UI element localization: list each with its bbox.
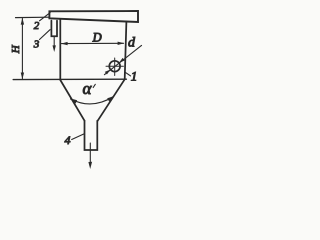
leader for 3 xyxy=(40,30,51,40)
cone left wall xyxy=(60,80,84,121)
svg-text:D: D xyxy=(92,31,102,45)
body right wall xyxy=(125,22,127,80)
H dimension line xyxy=(21,19,23,79)
svg-text:4: 4 xyxy=(65,133,71,147)
svg-text:3: 3 xyxy=(33,39,40,51)
d leader line through hole xyxy=(104,45,141,74)
crosshair horizontal xyxy=(106,65,123,67)
body left wall xyxy=(59,20,61,81)
crosshair vertical xyxy=(114,58,116,76)
leader for 1 xyxy=(125,72,130,76)
outlet tube 4 xyxy=(85,121,98,150)
lid (top cover plate) xyxy=(49,11,138,22)
outlet flow arrow xyxy=(89,143,91,163)
svg-text:2: 2 xyxy=(34,20,40,32)
leader for 2 xyxy=(40,13,51,21)
svg-text:d: d xyxy=(128,35,136,50)
body bottom line / H extension line xyxy=(13,78,126,80)
inlet flow arrow xyxy=(53,37,55,47)
H dimension extension line (top) xyxy=(16,16,50,18)
cone right wall xyxy=(98,79,125,120)
leader for 4 xyxy=(72,134,84,140)
inlet pipe 3 (through lid) xyxy=(51,21,57,37)
svg-text:1: 1 xyxy=(131,68,138,83)
svg-text:H: H xyxy=(10,44,22,54)
hole symbol circle (item 1) xyxy=(109,61,120,72)
D dimension line xyxy=(62,42,124,44)
angle dimension arc xyxy=(71,97,114,104)
svg-text:α: α xyxy=(83,79,93,98)
